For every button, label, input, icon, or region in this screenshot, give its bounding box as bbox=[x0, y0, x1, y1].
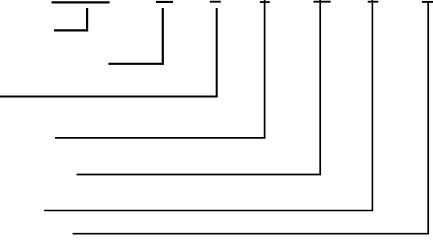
leader line 6 (vertical crosses tick up to top edge) bbox=[44, 0, 372, 211]
leader line 1 (elbow from tick 1) bbox=[54, 8, 87, 30]
tick 7 (runs to right image edge) bbox=[422, 1, 433, 3]
leader line 4 (vertical crosses tick up to top edge) bbox=[55, 0, 265, 138]
tick 6 bbox=[368, 1, 379, 3]
leader line 2 bbox=[108, 8, 162, 64]
tick 4 bbox=[260, 1, 270, 3]
leader line 5 (vertical crosses tick up to top edge) bbox=[77, 0, 321, 175]
leader line 7 bbox=[73, 2, 429, 234]
tick 5 bbox=[314, 1, 331, 3]
tick 1 (long underline over first code group) bbox=[52, 1, 110, 3]
leader line 3 (runs to left image edge) bbox=[0, 8, 217, 97]
tick 2 bbox=[156, 1, 173, 3]
tick 3 bbox=[210, 1, 221, 3]
